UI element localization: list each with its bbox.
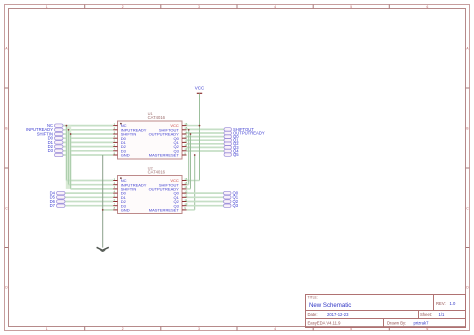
svg-text:1/1: 1/1 [439,312,445,317]
U2 pin name OUTPUTREADY [149,186,180,191]
junction NC [66,125,68,127]
svg-text:6: 6 [427,5,429,9]
wire U2 Q3 to P4 Q3 [187,205,224,207]
U2 pin name D2 [121,199,127,204]
U1 left pin 4 D0 [113,135,117,139]
U2 pin name MASTERRESET [149,207,180,212]
U2 pin name VCC [170,178,179,183]
U1 right pin 11 Q2 [182,143,188,147]
U1 left pin 1 NC [113,122,117,126]
wire U2 VCC pin to VCC vertical [187,180,200,182]
U2 left pin 2 INPUTREADY [113,181,117,185]
svg-text:2: 2 [122,5,124,9]
net label D5 [50,195,56,200]
junction OUTPUTREADY [190,133,192,135]
frame column numbers top [46,5,429,9]
U2 pin name NC [121,178,127,183]
svg-text:B: B [5,127,7,131]
svg-text:D3: D3 [48,148,54,153]
net label Q1 [233,138,239,143]
U1 pin name GND [121,153,130,158]
U1 left pin 3 SHIFTIN [113,130,117,134]
op-amp U2 CAT4016 body [118,176,183,214]
svg-text:Drawn By:: Drawn By: [387,321,406,326]
U2 right pin 12 Q1 [182,194,188,198]
U2 right pin 13 Q0 [182,189,188,193]
net label Q1 [233,195,239,200]
U2 left pin 6 D2 [113,198,117,202]
wire U1 SHIFTOUT down to U2 SHIFTOUT [187,130,189,185]
wire P2 D4 to U2 D0 [65,192,113,194]
U2 right pin 14 OUTPUTREADY [182,185,188,189]
net label INPUTREADY [26,127,53,132]
U1 pin name Q0 [173,136,179,141]
wire P1 pin5 to U1 left pin5 [63,141,113,143]
title block Drawn By [387,321,429,326]
U1 right pin 16 VCC [182,122,188,126]
wire P1 pin6 to U1 left pin6 [63,146,113,148]
U1 pin name NC [121,123,127,128]
net label OUTPUTREADY [233,130,265,135]
title block Sheet [420,312,445,317]
U1 value CAT4016 [148,115,166,120]
U2 pin name SHIFTOUT [159,182,179,187]
net label D0 [48,136,54,141]
U1 pin name D2 [121,144,127,149]
connector P4 pin 3 [224,200,232,203]
net label D6 [50,199,56,204]
connector P1 pin 6 [55,145,64,148]
wire U2 GND pin to GND vertical [103,209,114,211]
U2 pin name D1 [121,195,127,200]
U1 pin name D3 [121,148,127,153]
net label D7 [50,203,56,208]
U2 left pin 8 GND [113,206,117,210]
U1 right pin 15 SHIFTOUT [182,126,188,130]
wire U1 right pin to P3 pin5 [187,143,225,145]
net label D4 [50,191,56,196]
wire P1 SHIFTIN down to U2 SHIFTIN [71,134,114,189]
U2 right pin 10 Q3 [182,202,188,206]
net label Q2 [233,199,239,204]
U2 pin name INPUTREADY [121,182,147,187]
U2 left pin 4 D0 [113,189,117,193]
net label D3 [48,148,54,153]
connector P1 pin 3 [55,132,64,135]
op-amp U1 CAT4016 body [118,121,183,159]
svg-text:3: 3 [198,5,200,9]
U1 pin name D1 [121,140,127,145]
connector P4 pin 1 [224,191,232,194]
U1 pin name Q3 [173,148,179,153]
svg-text:Date:: Date: [308,312,318,317]
wire bus band P1 to U2 [66,126,71,189]
U2 right pin 9 MASTERRESET [182,206,187,210]
svg-text:Q3: Q3 [233,203,239,208]
title block TITLE label [308,295,318,299]
svg-text:D7: D7 [50,203,56,208]
wire P1 INPUTREADY down to U2 INPUTREADY [69,130,114,185]
net label Q2 [233,141,239,146]
junction SHIFTIN [70,133,72,135]
svg-text:3: 3 [198,327,200,331]
junction INPUTREADY [68,129,70,131]
net label SHIFTOUT [233,127,254,132]
connector P4 pin 2 [224,196,232,199]
U2 left pin 5 D1 [113,194,117,198]
title block REV [436,301,456,306]
svg-text:VCC: VCC [195,86,205,91]
wire U1 right pin to P3 pin1 [187,128,225,130]
U1 right pin 13 Q0 [182,135,188,139]
wire U2 Q1 to P4 Q1 [187,196,224,198]
wire P1 pin4 to U1 left pin4 [63,137,113,139]
frame column ticks bottom [85,327,390,331]
U2 pin name SHIFTIN [121,186,137,191]
svg-text:4: 4 [274,5,276,9]
wire U1 right pin to P3 pin7 [187,150,225,152]
svg-text:MASTERRESET: MASTERRESET [149,207,180,212]
U1 left pin 7 D3 [113,147,117,151]
svg-text:EasyEDA V4.11.9: EasyEDA V4.11.9 [308,321,342,326]
U1 reference designator [148,111,154,116]
connector P2 pin 1 [57,191,66,194]
VCC power symbol [195,86,205,96]
frame row letters left [5,47,8,290]
wire P1 pin2 to U1 left pin2 [63,129,113,131]
frame row ticks right [466,88,470,248]
U1 pin name D0 [121,136,127,141]
frame row letters right [466,47,469,290]
wire P2 D7 to U2 D3 [65,205,113,207]
frame row ticks left [5,88,9,248]
wire P1 pin1 to U1 left pin1 [63,125,113,127]
U1 pin name MASTERRESET [149,153,180,158]
net label D1 [48,140,54,145]
wire P2 D6 to U2 D2 [65,201,113,203]
connector P1 pin 4 [55,137,64,140]
ground [97,247,109,251]
U1 right pin 10 Q3 [182,147,188,151]
wire U1 right pin to P3 pin2 [187,132,225,134]
svg-text:GND: GND [121,207,130,212]
net label Q5 [233,152,239,157]
svg-text:1: 1 [46,327,48,331]
svg-text:CAT4016: CAT4016 [148,115,166,120]
svg-text:MASTERRESET: MASTERRESET [149,153,180,158]
svg-text:2: 2 [122,327,124,331]
U1 left pin 2 INPUTREADY [113,126,117,130]
U1 pin name Q2 [173,144,179,149]
U2 reference designator [148,165,154,170]
svg-text:TITLE:: TITLE: [308,295,318,299]
wire P1 pin7 to U1 left pin7 [63,150,113,152]
U1 right pin 12 Q1 [182,139,188,143]
wire P1 NC down to U2 NC [66,126,113,181]
junction SHIFTOUT [188,129,190,131]
U2 pin name GND [121,207,130,212]
U1 left pin 5 D1 [113,139,117,143]
wire U1 right pin to P3 pin4 [187,139,225,141]
net label Q3 [233,145,239,150]
U2 left pin 3 SHIFTIN [113,185,117,189]
svg-text:4: 4 [274,327,276,331]
net label D2 [48,144,54,149]
U1 pin name SHIFTOUT [159,127,179,132]
wire U2 Q0 to P4 Q0 [187,192,224,194]
wire VCC vertical from VCC symbol down to U2 VCC row [199,96,201,181]
connector P3 pin 5 [224,142,232,145]
svg-text:1: 1 [46,5,48,9]
title block EasyEDA version [308,321,342,326]
connector P3 pin 4 [224,139,232,142]
U1 pin name VCC [170,123,179,128]
svg-text:GND: GND [121,153,130,158]
U1 pin name Q1 [173,140,179,145]
connector P1 pin 5 [55,141,64,144]
svg-text:CAT4016: CAT4016 [148,170,166,175]
U2 pin name Q2 [173,199,179,204]
connector P4 pin 4 [224,204,232,207]
U2 right pin 11 Q2 [182,198,188,202]
connector P2 pin 3 [57,200,66,203]
U2 pin name Q0 [173,191,179,196]
title block frame [306,295,466,328]
connector P1 pin 7 [55,149,64,152]
frame column numbers bottom [46,327,429,331]
connector P1 pin 2 [55,128,64,131]
wire U1 MASTERRESET down to U2 MASTERRESET [187,155,195,210]
wire P1 pin8 to U1 left pin8 [63,154,113,156]
U1 pin name SHIFTIN [121,132,137,137]
U1 right pin 14 OUTPUTREADY [182,130,188,134]
wire U2 Q2 to P4 Q2 [187,201,224,203]
net label Q4 [233,148,239,153]
U2 right pin 16 VCC [182,177,188,181]
svg-text:prizrak7: prizrak7 [414,321,430,326]
U2 pin name Q3 [173,203,179,208]
svg-text:New Schematic: New Schematic [309,302,351,309]
connector P3 pin 8 [224,153,232,156]
wire P1 pin3 to U1 left pin3 [63,133,113,135]
title block Date [308,312,350,317]
junction VCC [199,125,201,127]
connector P3 pin 1 [224,128,232,131]
net label SHIFTIN [37,131,53,136]
svg-text:Q5: Q5 [233,152,239,157]
wire GND vertical down to ground symbol [102,155,104,248]
U2 right pin 15 SHIFTOUT [182,181,188,185]
svg-text:2017-12-23: 2017-12-23 [327,312,349,317]
svg-text:1.0: 1.0 [450,301,456,306]
U1 left pin 8 GND [113,151,117,155]
U2 left pin 7 D3 [113,202,117,206]
connector P3 pin 7 [224,149,232,152]
connector P1 pin 8 [55,153,64,156]
U2 left pin 1 NC [113,177,117,181]
wire U1 OUTPUTREADY down to U2 OUTPUTREADY [187,134,191,189]
connector P2 pin 2 [57,196,66,199]
junction MASTERRESET [194,154,196,156]
connector P3 pin 2 [224,131,232,134]
U1 pin name INPUTREADY [121,127,147,132]
connector P3 pin 3 [224,135,232,138]
U1 left pin 6 D2 [113,143,117,147]
connector P2 pin 4 [57,204,66,207]
net label Q0 [233,134,239,139]
title block title value [309,302,351,309]
svg-text:B: B [466,127,468,131]
svg-text:Sheet:: Sheet: [420,312,432,317]
frame column ticks top [85,5,390,9]
wire P2 D5 to U2 D1 [65,196,113,198]
connector P1 pin 1 [55,124,64,127]
net label NC [47,123,53,128]
junction GND [102,209,104,211]
net label Q3 [233,203,239,208]
U2 value CAT4016 [148,170,166,175]
connector P3 pin 6 [224,146,232,149]
U2 pin name D0 [121,191,127,196]
net label Q0 [233,191,239,196]
U1 pin name OUTPUTREADY [149,132,180,137]
U2 pin name Q1 [173,195,179,200]
wire U1 right pin to P3 pin3 [187,136,225,138]
U1 right pin 9 MASTERRESET [182,151,187,155]
wire U1 right pin to P3 pin6 [187,146,225,148]
svg-text:5: 5 [350,5,352,9]
svg-text:REV:: REV: [436,301,446,306]
U2 pin name D3 [121,203,127,208]
wire VCC branch to U1 VCC pin [187,125,200,127]
